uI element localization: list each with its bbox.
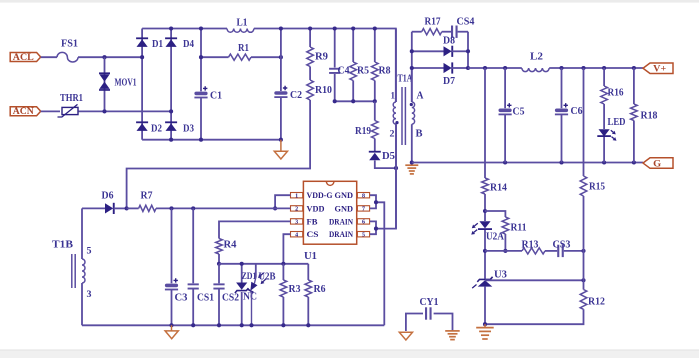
wire CS node rail xyxy=(219,263,308,265)
ground CY1 left xyxy=(399,332,412,340)
svg-text:CS1: CS1 xyxy=(197,293,214,304)
svg-text:R11: R11 xyxy=(511,223,527,234)
pin 2 xyxy=(291,206,303,211)
svg-text:2: 2 xyxy=(390,130,395,140)
wire FB to R4 xyxy=(219,221,291,238)
svg-text:D4: D4 xyxy=(183,39,195,50)
svg-text:D2: D2 xyxy=(151,123,162,134)
capacitor C6 xyxy=(561,68,563,108)
node bridge ACN xyxy=(169,109,173,113)
svg-text:R12: R12 xyxy=(588,297,605,308)
svg-text:6: 6 xyxy=(362,220,365,226)
svg-text:R19: R19 xyxy=(355,126,371,137)
resistor R4 xyxy=(216,239,223,255)
svg-text:CS: CS xyxy=(307,229,319,239)
svg-text:L1: L1 xyxy=(237,18,248,29)
thermistor THR1 xyxy=(62,107,78,114)
resistor R8 xyxy=(374,29,376,63)
svg-text:A: A xyxy=(417,91,425,102)
diode D8 xyxy=(412,50,444,52)
svg-text:LED: LED xyxy=(608,117,626,128)
resistor R14 xyxy=(482,178,489,194)
pin 8 xyxy=(357,193,369,198)
port ACL xyxy=(10,53,41,62)
port V+ xyxy=(643,63,673,74)
wire ACL to FS1 xyxy=(41,56,57,58)
svg-text:8: 8 xyxy=(362,193,365,199)
resistor R5 xyxy=(352,29,354,63)
wire feedback column xyxy=(484,68,486,178)
diode D6 xyxy=(82,207,105,209)
resistor R16 xyxy=(603,68,605,86)
svg-text:CS2: CS2 xyxy=(222,293,239,304)
pin 1 xyxy=(291,193,303,198)
wire GND pins xyxy=(370,195,376,208)
svg-text:R9: R9 xyxy=(315,52,328,63)
port G xyxy=(643,158,673,169)
capacitor C4 xyxy=(334,29,336,68)
svg-text:C3: C3 xyxy=(175,293,188,304)
ground bottom-left xyxy=(171,325,173,330)
svg-text:3: 3 xyxy=(87,290,92,300)
svg-text:3: 3 xyxy=(295,220,298,226)
resistor R3 xyxy=(282,264,284,280)
resistor R18 xyxy=(633,68,635,104)
svg-text:R18: R18 xyxy=(641,111,658,122)
svg-text:DRAIN: DRAIN xyxy=(329,216,354,226)
svg-text:R4: R4 xyxy=(224,240,238,251)
wire bridge right column xyxy=(170,29,172,140)
ground CY1 right xyxy=(445,330,460,332)
capacitor C1 xyxy=(200,29,202,92)
pin 3 xyxy=(291,219,303,224)
wire CS pin column xyxy=(283,234,290,264)
diode D2 xyxy=(136,121,148,123)
ground below T1A secondary xyxy=(411,163,413,165)
svg-text:THR1: THR1 xyxy=(60,93,83,104)
svg-text:DRAIN: DRAIN xyxy=(329,229,354,239)
svg-text:R1: R1 xyxy=(238,43,249,54)
pin 6 xyxy=(357,219,369,224)
svg-text:U2B: U2B xyxy=(259,272,276,283)
svg-text:T1A: T1A xyxy=(398,74,413,85)
resistor R7 xyxy=(127,207,139,209)
transformer T1B xyxy=(81,208,83,259)
capacitor CS3 xyxy=(545,250,557,252)
wire bottom rail xyxy=(82,324,384,326)
zener ZD1 xyxy=(241,264,243,283)
svg-text:5: 5 xyxy=(362,232,365,238)
svg-text:GND: GND xyxy=(335,203,354,213)
svg-text:U1: U1 xyxy=(304,250,317,262)
svg-text:VDD-G: VDD-G xyxy=(307,190,333,200)
svg-text:FS1: FS1 xyxy=(61,39,78,50)
wire VDD-G tie xyxy=(275,195,290,208)
wire DC top bus xyxy=(142,28,227,30)
svg-text:U3: U3 xyxy=(494,270,507,281)
svg-text:L2: L2 xyxy=(530,52,543,63)
svg-text:C1: C1 xyxy=(210,91,222,102)
shunt regulator U3 xyxy=(477,277,492,282)
svg-text:R15: R15 xyxy=(589,182,605,193)
wire R7 to VDD xyxy=(156,207,291,209)
ground below C2 xyxy=(280,140,282,151)
op-amp U1 body xyxy=(303,181,356,244)
wire ACN to THR1 xyxy=(41,110,60,112)
resistor R13 xyxy=(522,248,545,254)
svg-text:D8: D8 xyxy=(443,36,455,47)
svg-text:D1: D1 xyxy=(152,39,163,50)
svg-text:1: 1 xyxy=(391,92,396,102)
varistor MOV1 xyxy=(104,57,106,111)
svg-text:B: B xyxy=(416,129,423,140)
svg-text:D3: D3 xyxy=(183,123,194,134)
wire snubber left xyxy=(411,32,413,102)
wire THR1 to bridge xyxy=(79,110,172,112)
wire bridge left column xyxy=(141,29,143,140)
transformer T1A primary xyxy=(395,29,397,103)
capacitor C2 xyxy=(280,29,282,92)
svg-text:GND: GND xyxy=(335,190,354,200)
svg-text:5: 5 xyxy=(87,247,92,257)
transformer T1A secondary xyxy=(411,68,413,102)
node bottom D3 xyxy=(169,138,173,142)
capacitor CS1 xyxy=(192,208,194,283)
wire snubber right xyxy=(467,32,469,68)
wire bridge bottom bus xyxy=(142,139,281,141)
inductor L1 xyxy=(227,29,254,33)
ground below feedback column xyxy=(484,324,486,327)
wire FS1 to bridge xyxy=(78,56,142,58)
fuse FS1 xyxy=(57,52,78,62)
resistor R6 xyxy=(307,264,309,280)
svg-text:1: 1 xyxy=(295,193,298,199)
svg-text:VDD: VDD xyxy=(307,203,325,213)
wire R10 down-left to D6 node xyxy=(127,100,311,208)
svg-text:R16: R16 xyxy=(608,88,624,99)
svg-text:R17: R17 xyxy=(425,17,441,28)
svg-text:ACL: ACL xyxy=(13,53,34,63)
svg-text:CY1: CY1 xyxy=(420,297,439,308)
pin 4 xyxy=(291,232,303,237)
svg-text:D5: D5 xyxy=(382,151,395,162)
svg-text:R13: R13 xyxy=(522,240,539,251)
diode D1 xyxy=(136,37,148,39)
wire clamp bus xyxy=(335,100,375,102)
capacitor CS4 xyxy=(442,31,451,33)
svg-text:FB: FB xyxy=(307,216,318,226)
resistor R9 xyxy=(309,29,311,48)
pin 7 xyxy=(357,206,369,211)
svg-text:R3: R3 xyxy=(289,284,301,295)
resistor R1 xyxy=(201,56,229,58)
svg-text:C6: C6 xyxy=(571,106,583,117)
resistor R10 xyxy=(309,67,311,81)
optocoupler U2B xyxy=(255,264,257,278)
svg-text:ACN: ACN xyxy=(13,107,34,117)
svg-text:T1B: T1B xyxy=(52,240,73,251)
svg-text:R14: R14 xyxy=(490,183,508,194)
svg-text:CS3: CS3 xyxy=(553,240,571,251)
svg-text:CS4: CS4 xyxy=(457,17,476,28)
svg-text:D6: D6 xyxy=(102,191,114,202)
svg-text:MOV1: MOV1 xyxy=(115,78,137,89)
node top bus D4 xyxy=(169,26,173,30)
optocoupler U2A xyxy=(479,221,490,228)
svg-text:R6: R6 xyxy=(314,284,326,295)
capacitor CY1 xyxy=(406,314,423,332)
node bridge ACL xyxy=(140,55,144,59)
capacitor C5 xyxy=(504,68,506,108)
port ACN xyxy=(10,107,41,116)
wire U3 cathode row xyxy=(485,279,584,281)
svg-text:2: 2 xyxy=(295,207,298,213)
diode D7 xyxy=(412,67,444,69)
svg-text:G: G xyxy=(653,160,662,170)
svg-text:7: 7 xyxy=(362,207,365,213)
capacitor CS2 xyxy=(218,264,220,284)
diode D3 xyxy=(165,121,177,123)
svg-text:C2: C2 xyxy=(290,90,302,101)
svg-text:4: 4 xyxy=(295,232,298,238)
svg-text:D7: D7 xyxy=(443,76,455,87)
wire R13 row xyxy=(485,250,522,252)
resistor R17 xyxy=(412,31,422,33)
svg-text:V+: V+ xyxy=(653,65,666,75)
svg-text:C4: C4 xyxy=(338,66,351,77)
wire V+ bus xyxy=(468,67,522,69)
wire DRAIN pins xyxy=(370,221,376,234)
resistor R15 xyxy=(583,68,585,176)
svg-text:R7: R7 xyxy=(141,191,153,202)
LED indicator xyxy=(603,104,605,129)
inductor L2 xyxy=(522,68,549,72)
wire G bus xyxy=(412,162,643,164)
svg-text:R8: R8 xyxy=(379,66,391,77)
wire R12 bottom loop xyxy=(485,309,584,324)
diode D5 xyxy=(374,139,376,152)
diode D4 xyxy=(165,37,177,39)
resistor R11 parallel xyxy=(485,211,505,217)
svg-text:R5: R5 xyxy=(357,66,369,77)
resistor R12 xyxy=(583,280,585,289)
node ACL-MOV junction xyxy=(102,55,106,59)
resistor R19 xyxy=(374,101,376,120)
svg-text:NC: NC xyxy=(243,292,257,303)
capacitor C3 xyxy=(171,208,173,283)
svg-text:C5: C5 xyxy=(513,107,525,118)
wire D5 to drain column xyxy=(375,161,396,169)
svg-text:R10: R10 xyxy=(315,85,332,96)
pin 5 xyxy=(357,232,369,237)
transformer T1A core xyxy=(402,87,405,145)
